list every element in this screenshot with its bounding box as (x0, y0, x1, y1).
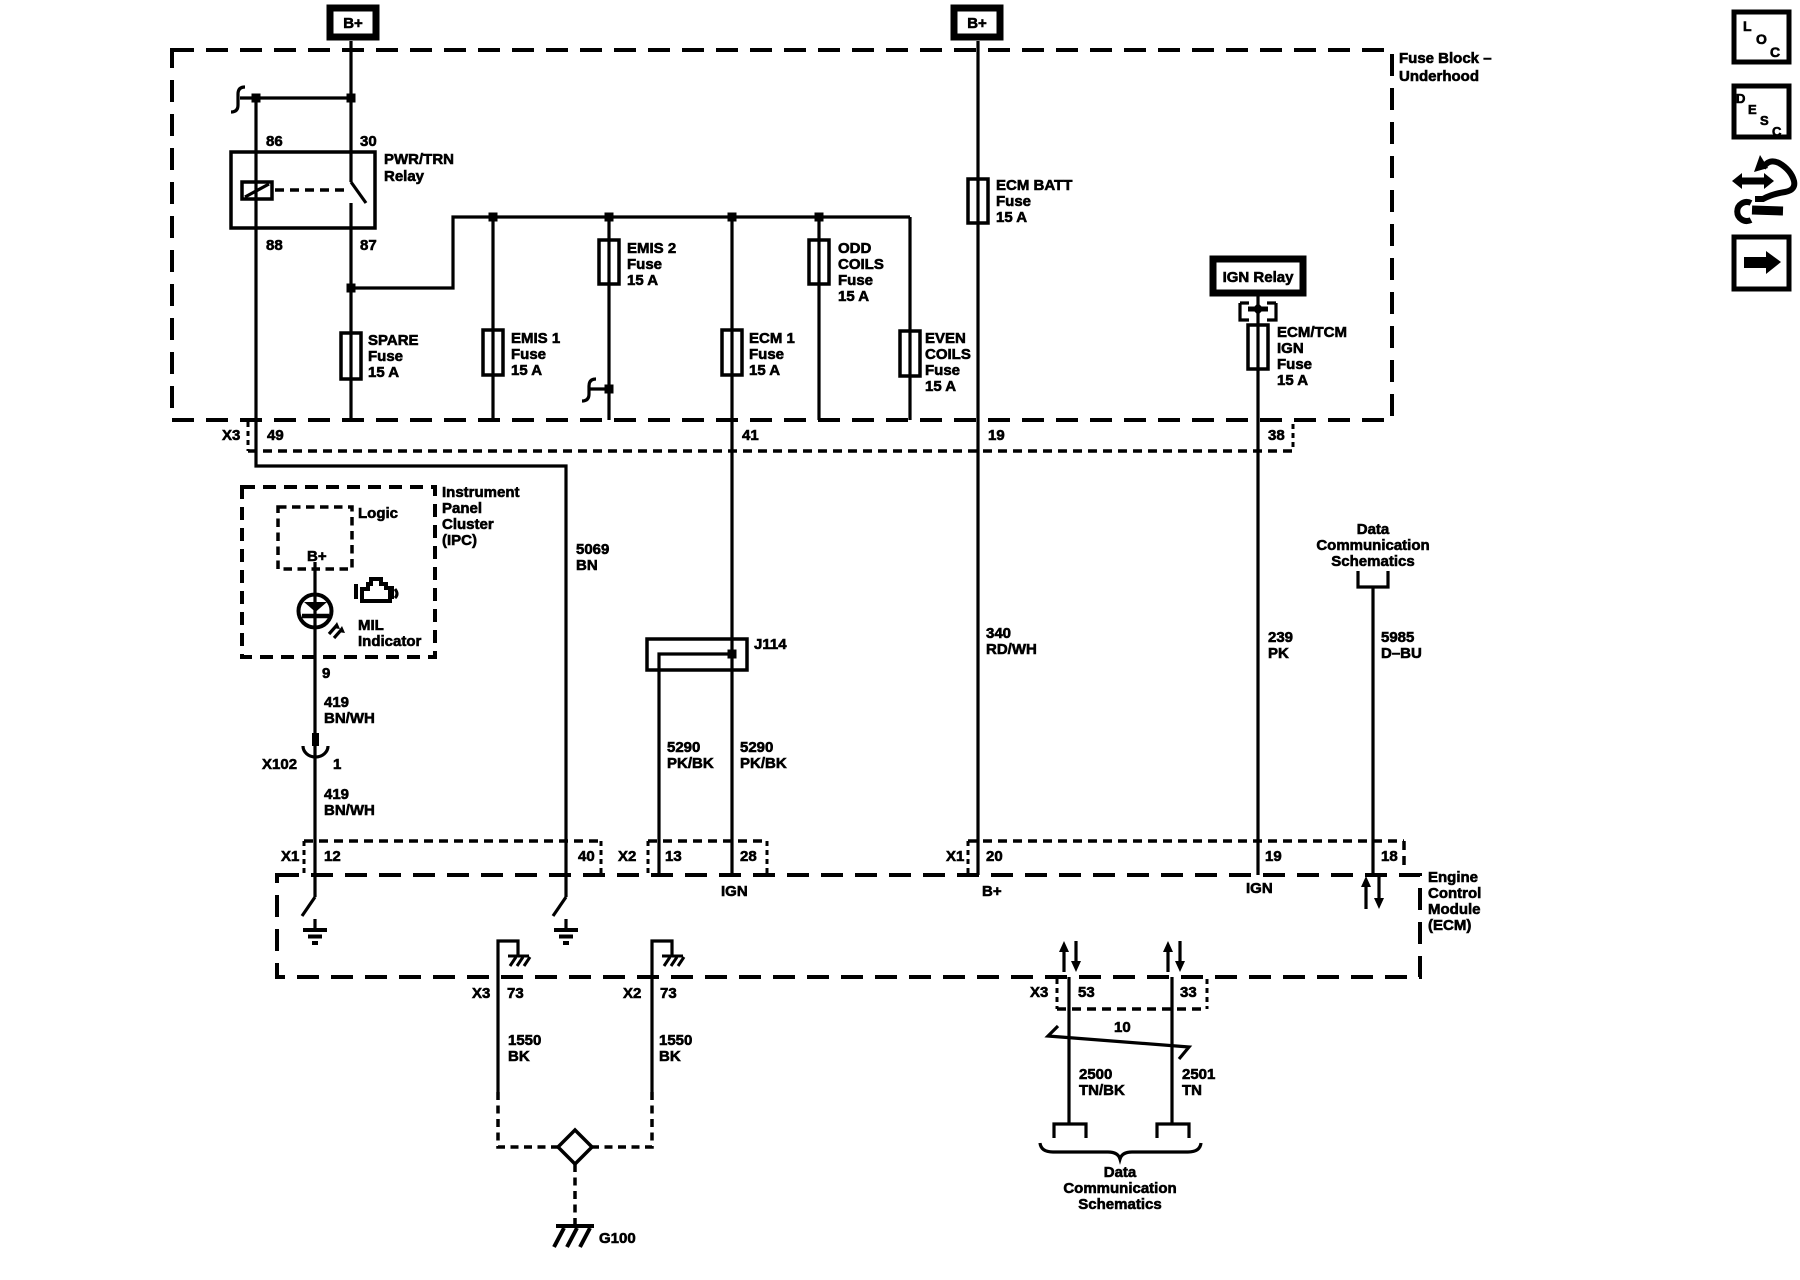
svg-text:X3: X3 (222, 427, 240, 444)
svg-text:BK: BK (659, 1048, 681, 1065)
svg-text:O: O (1756, 31, 1767, 47)
svg-text:PK/BK: PK/BK (667, 755, 714, 772)
svg-text:ECM BATT: ECM BATT (996, 177, 1072, 194)
svg-text:15 A: 15 A (627, 272, 658, 289)
svg-text:E: E (1748, 102, 1757, 117)
svg-text:Schematics: Schematics (1078, 1196, 1161, 1213)
svg-text:5985: 5985 (1381, 629, 1414, 646)
svg-text:239: 239 (1268, 629, 1293, 646)
svg-text:419: 419 (324, 694, 349, 711)
svg-text:J114: J114 (754, 636, 787, 653)
svg-text:PK/BK: PK/BK (740, 755, 787, 772)
svg-text:73: 73 (507, 985, 524, 1002)
svg-text:Logic: Logic (358, 505, 398, 522)
svg-text:53: 53 (1078, 984, 1095, 1001)
svg-text:Communication: Communication (1316, 537, 1429, 554)
svg-text:ODD: ODD (838, 240, 872, 257)
svg-text:EMIS 1: EMIS 1 (511, 330, 560, 347)
svg-text:15 A: 15 A (838, 288, 869, 305)
svg-text:1: 1 (333, 756, 341, 773)
svg-text:87: 87 (360, 237, 377, 254)
svg-text:BN/WH: BN/WH (324, 802, 375, 819)
svg-text:Fuse Block –: Fuse Block – (1399, 50, 1492, 67)
svg-text:Fuse: Fuse (838, 272, 873, 289)
svg-text:TN: TN (1182, 1082, 1202, 1099)
svg-text:Communication: Communication (1063, 1180, 1176, 1197)
svg-text:ECM 1: ECM 1 (749, 330, 795, 347)
svg-text:IGN: IGN (721, 883, 748, 900)
svg-text:X3: X3 (472, 985, 490, 1002)
svg-text:Fuse: Fuse (996, 193, 1031, 210)
svg-text:19: 19 (1265, 848, 1282, 865)
svg-text:40: 40 (578, 848, 595, 865)
svg-text:BK: BK (508, 1048, 530, 1065)
svg-text:49: 49 (267, 427, 284, 444)
svg-text:TN/BK: TN/BK (1079, 1082, 1125, 1099)
svg-text:S: S (1760, 113, 1769, 128)
svg-text:38: 38 (1268, 427, 1285, 444)
svg-text:86: 86 (266, 133, 283, 150)
svg-text:X3: X3 (1030, 984, 1048, 1001)
svg-text:PK: PK (1268, 645, 1289, 662)
svg-text:5069: 5069 (576, 541, 609, 558)
svg-text:15 A: 15 A (511, 362, 542, 379)
svg-text:28: 28 (740, 848, 757, 865)
svg-text:RD/WH: RD/WH (986, 641, 1037, 658)
svg-text:X1: X1 (946, 848, 964, 865)
svg-text:Fuse: Fuse (749, 346, 784, 363)
svg-text:Panel: Panel (442, 500, 482, 517)
svg-text:Indicator: Indicator (358, 633, 422, 650)
svg-text:9: 9 (322, 665, 330, 682)
svg-text:G100: G100 (599, 1230, 636, 1247)
svg-text:73: 73 (660, 985, 677, 1002)
svg-text:B+: B+ (967, 15, 987, 32)
svg-text:D–BU: D–BU (1381, 645, 1422, 662)
svg-text:COILS: COILS (925, 346, 971, 363)
svg-text:Data: Data (1104, 1164, 1137, 1181)
svg-text:419: 419 (324, 786, 349, 803)
svg-text:ECM/TCM: ECM/TCM (1277, 324, 1347, 341)
svg-text:Module: Module (1428, 901, 1481, 918)
svg-text:EVEN: EVEN (925, 330, 966, 347)
svg-text:19: 19 (988, 427, 1005, 444)
svg-text:PWR/TRN: PWR/TRN (384, 151, 454, 168)
svg-text:Instrument: Instrument (442, 484, 520, 501)
svg-text:18: 18 (1381, 848, 1398, 865)
svg-text:Fuse: Fuse (511, 346, 546, 363)
svg-text:Control: Control (1428, 885, 1481, 902)
svg-text:B+: B+ (307, 548, 327, 565)
svg-text:L: L (1743, 18, 1752, 34)
svg-text:(ECM): (ECM) (1428, 917, 1471, 934)
svg-text:C: C (1770, 44, 1780, 60)
svg-text:15 A: 15 A (749, 362, 780, 379)
svg-text:Engine: Engine (1428, 869, 1478, 886)
svg-text:15 A: 15 A (925, 378, 956, 395)
svg-text:33: 33 (1180, 984, 1197, 1001)
svg-text:X1: X1 (281, 848, 299, 865)
svg-text:BN: BN (576, 557, 598, 574)
svg-text:BN/WH: BN/WH (324, 710, 375, 727)
svg-text:2501: 2501 (1182, 1066, 1215, 1083)
svg-text:30: 30 (360, 133, 377, 150)
svg-text:Relay: Relay (384, 168, 425, 185)
svg-text:15 A: 15 A (368, 364, 399, 381)
svg-text:15 A: 15 A (996, 209, 1027, 226)
svg-text:Fuse: Fuse (627, 256, 662, 273)
svg-text:Data: Data (1357, 521, 1390, 538)
svg-text:Cluster: Cluster (442, 516, 494, 533)
svg-text:13: 13 (665, 848, 682, 865)
svg-text:X2: X2 (623, 985, 641, 1002)
svg-text:X102: X102 (262, 756, 297, 773)
svg-text:IGN: IGN (1246, 880, 1273, 897)
svg-text:41: 41 (742, 427, 759, 444)
svg-text:15 A: 15 A (1277, 372, 1308, 389)
svg-text:Fuse: Fuse (368, 348, 403, 365)
svg-text:12: 12 (324, 848, 341, 865)
svg-text:10: 10 (1114, 1019, 1131, 1036)
svg-text:MIL: MIL (358, 617, 384, 634)
svg-text:(IPC): (IPC) (442, 532, 477, 549)
svg-text:Schematics: Schematics (1331, 553, 1414, 570)
svg-text:5290: 5290 (667, 739, 700, 756)
svg-text:IGN Relay: IGN Relay (1223, 269, 1295, 286)
svg-text:D: D (1736, 91, 1745, 106)
svg-text:20: 20 (986, 848, 1003, 865)
svg-text:B+: B+ (982, 883, 1002, 900)
svg-text:EMIS 2: EMIS 2 (627, 240, 676, 257)
svg-text:C: C (1772, 124, 1782, 139)
svg-text:X2: X2 (618, 848, 636, 865)
svg-text:1550: 1550 (659, 1032, 692, 1049)
svg-text:Fuse: Fuse (1277, 356, 1312, 373)
svg-text:B+: B+ (343, 15, 363, 32)
svg-text:5290: 5290 (740, 739, 773, 756)
svg-text:SPARE: SPARE (368, 332, 419, 349)
svg-text:340: 340 (986, 625, 1011, 642)
svg-text:Underhood: Underhood (1399, 68, 1479, 85)
svg-text:IGN: IGN (1277, 340, 1304, 357)
svg-text:88: 88 (266, 237, 283, 254)
svg-text:1550: 1550 (508, 1032, 541, 1049)
svg-text:COILS: COILS (838, 256, 884, 273)
svg-text:2500: 2500 (1079, 1066, 1112, 1083)
svg-text:Fuse: Fuse (925, 362, 960, 379)
